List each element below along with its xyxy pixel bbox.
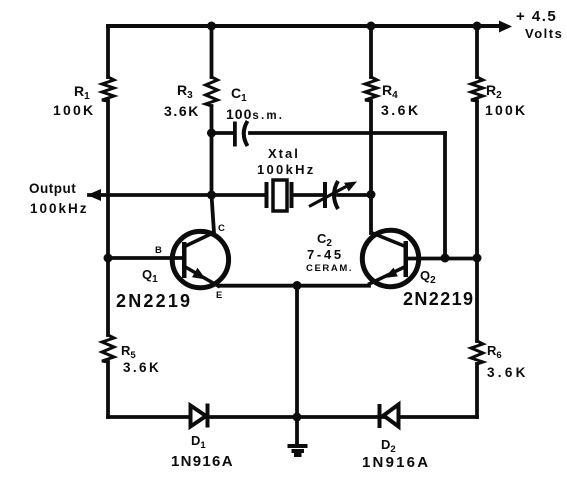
wire right rail upper (R2 top lead) [475, 26, 479, 77]
label R5 value 3.6K [121, 343, 161, 375]
svg-text:R5: R5 [121, 343, 136, 361]
capacitor C2 variable [309, 181, 357, 209]
wire variable capacitor to rail3 [338, 193, 371, 197]
supply arrowhead +4.5V [499, 21, 512, 33]
diode D1 [191, 404, 210, 428]
wire rail2 middle (R3 to C1 node) [210, 106, 214, 133]
label Q2 2N2219 [403, 268, 474, 309]
svg-text:R1: R1 [74, 83, 90, 102]
resistor R4 [365, 77, 377, 101]
svg-text:+ 4.5: + 4.5 [516, 8, 557, 25]
label R1 value 100K [53, 83, 95, 118]
svg-text:100kHz: 100kHz [30, 201, 89, 216]
svg-text:1N916A: 1N916A [171, 453, 234, 470]
wire rail3 upper (R4 top lead) [369, 26, 373, 77]
wire right rail bottom (R6 to bottom wire) [475, 364, 479, 417]
wire rail3 (R4 to xtal node to Q2 collector) [369, 101, 373, 233]
svg-text:2N2219: 2N2219 [403, 289, 474, 309]
wire rail2 upper (R3 top lead) [210, 26, 214, 77]
label Q1 pin B [155, 245, 162, 256]
transistor Q1 [172, 231, 228, 287]
wire left rail bottom (R5 to bottom wire) [106, 362, 110, 417]
svg-text:D1: D1 [191, 433, 206, 451]
transistor Q2 [362, 230, 418, 286]
wire crystal to variable capacitor [294, 193, 324, 197]
svg-text:R2: R2 [486, 82, 502, 101]
label C1 value 100 s.m. [226, 85, 284, 122]
junction node emitter bus at center rail [293, 281, 302, 290]
resistor R1 [102, 77, 114, 101]
wire C1 left lead from rail2 [212, 131, 234, 135]
ground [288, 444, 308, 457]
crystal Xtal 100kHz [265, 180, 294, 211]
wire emitter bus Q1 to Q2 [219, 284, 369, 288]
svg-text:C1: C1 [231, 85, 247, 104]
svg-text:100K: 100K [53, 102, 95, 118]
junction node C1 drop at Q2 base [441, 254, 450, 263]
svg-text:3.6K: 3.6K [381, 102, 421, 118]
svg-text:R3: R3 [177, 82, 193, 101]
wire vertical drop C1 to Q2 base [443, 133, 447, 258]
resistor R6 [471, 341, 483, 364]
junction node bottom center ground [293, 413, 302, 422]
capacitor C1 [233, 121, 248, 147]
wire Q1 base lead [108, 256, 183, 260]
wire right rail middle (R2 to Q2 base node) [475, 101, 479, 258]
svg-text:100K: 100K [485, 102, 527, 118]
svg-text:1N916A: 1N916A [362, 454, 430, 471]
svg-text:R4: R4 [382, 82, 398, 101]
wire center rail emitters to bottom [295, 286, 299, 418]
junction node Q1 base at left rail [104, 254, 113, 263]
junction node top right rail [473, 22, 482, 31]
resistor R2 [471, 77, 483, 101]
wire bottom rail [108, 415, 477, 419]
junction node varcap at rail3 [367, 190, 376, 199]
svg-text:100kHz: 100kHz [257, 162, 316, 177]
wire top supply rail [108, 24, 500, 28]
resistor R5 [102, 335, 114, 362]
wire left rail upper (R1 top lead) [106, 26, 110, 77]
label Q1 2N2219 [116, 267, 192, 311]
label R3 value 3.6K [164, 82, 200, 119]
svg-text:C: C [218, 223, 225, 234]
wire C1 right lead to Q2 base drop [250, 131, 445, 135]
label Q1 pin C [218, 223, 225, 234]
svg-text:3.6K: 3.6K [123, 360, 161, 375]
svg-text:E: E [216, 290, 222, 301]
junction node C1 at rail2 [207, 129, 216, 138]
wire left rail lower (base node to R5) [106, 258, 110, 335]
svg-text:D2: D2 [381, 437, 396, 455]
svg-text:7-45: 7-45 [307, 247, 344, 262]
svg-text:2N2219: 2N2219 [116, 291, 192, 311]
resistor R3 [206, 77, 218, 106]
wire left rail middle (R1 to Q1 base node) [106, 101, 110, 258]
svg-text:3.6K: 3.6K [487, 365, 529, 380]
junction node top rail3 [367, 22, 376, 31]
label Q1 pin E [216, 290, 222, 301]
output arrowhead [87, 189, 101, 201]
svg-text:Q1: Q1 [142, 267, 158, 285]
junction node Q2 base at right rail [473, 254, 482, 263]
label R6 value 3.6K [487, 343, 529, 380]
label R4 value 3.6K [381, 82, 421, 118]
wire ground stem [295, 417, 299, 446]
label C2 7-45 CERAM. [306, 231, 353, 274]
svg-text:Volts: Volts [525, 26, 563, 41]
svg-text:R6: R6 [487, 343, 502, 361]
label D1 value 1N916A [171, 433, 234, 470]
svg-text:Output: Output [29, 181, 76, 196]
wire Q2 base lead [408, 257, 477, 261]
svg-text:3.6K: 3.6K [164, 103, 200, 119]
diode D2 [378, 404, 399, 428]
label Xtal 100kHz [257, 146, 316, 177]
label +4.5 Volts [516, 8, 563, 41]
svg-text:100s.m.: 100s.m. [226, 106, 284, 122]
wire right rail lower (base node to R6) [475, 258, 479, 341]
junction node xtal line at rail2 [207, 191, 216, 200]
svg-text:Q2: Q2 [420, 268, 436, 286]
svg-text:CERAM.: CERAM. [306, 263, 353, 274]
wire rail2 lower (C1 node to xtal node to Q1 collector) [212, 133, 215, 233]
wire output line (arrow to crystal) [89, 193, 265, 197]
junction node top rail2 [207, 22, 216, 31]
svg-text:B: B [155, 245, 162, 256]
label D2 value 1N916A [362, 437, 430, 471]
label Output 100kHz [29, 181, 89, 216]
label R2 value 100K [485, 82, 527, 118]
svg-text:Xtal: Xtal [268, 146, 300, 161]
